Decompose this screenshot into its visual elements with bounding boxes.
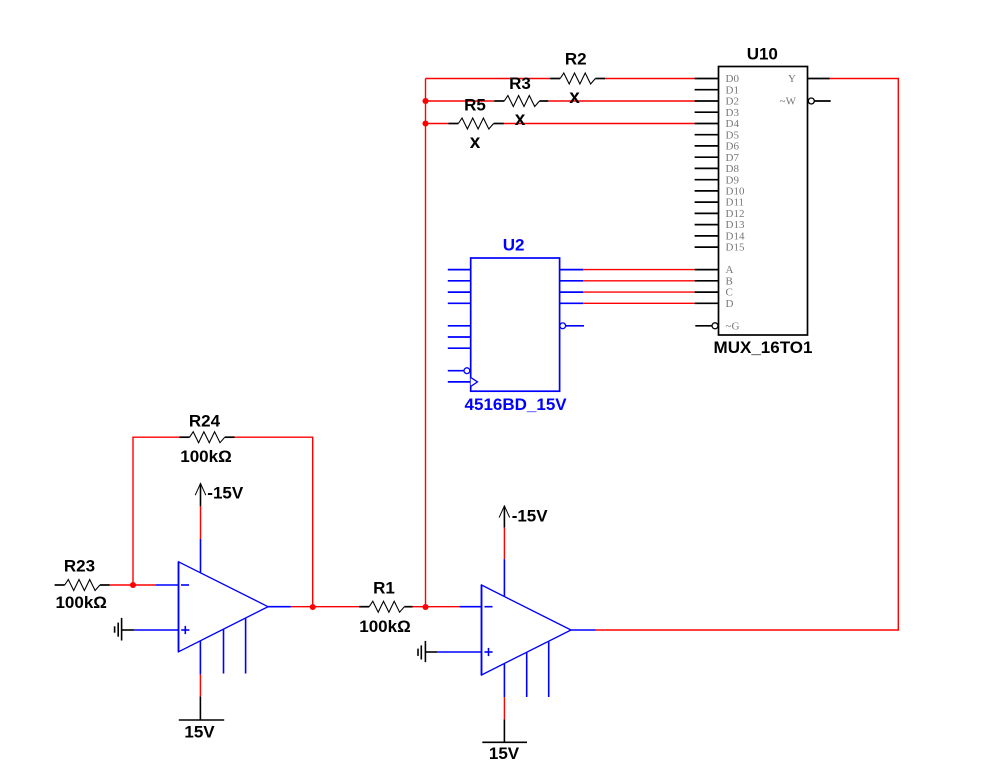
resistor R2 [550,73,605,84]
svg-text:100kΩ: 100kΩ [180,447,231,466]
junction node D4 [422,120,428,126]
op-amp2 minus pin stub [460,606,482,608]
op-amp2 plus pin stub [437,651,481,653]
op-amp2 plus symbol [484,651,492,653]
wire R1 to junction [413,606,426,608]
counter U2 box [471,258,560,391]
power -15V arrow op-amp1 [195,484,206,507]
wire B row U2 to U10 [583,280,694,282]
svg-text:R5: R5 [464,95,486,114]
wire 15V to op-amp1 [199,674,201,696]
resistor R23 [55,580,110,591]
svg-text:-15V: -15V [512,507,549,526]
U10 pin ~W with bubble [808,98,814,104]
svg-text:D1: D1 [726,84,739,96]
wire feedback loop R24 [133,437,180,585]
svg-text:~G: ~G [726,320,740,332]
svg-text:15V: 15V [184,723,215,742]
resistor R3 [494,96,548,107]
junction node D2 [422,98,428,104]
svg-text:D14: D14 [726,231,745,243]
junction node R1 / trunk [422,604,428,610]
svg-text:MUX_16TO1: MUX_16TO1 [714,338,813,357]
op-amp1 V- pin [199,641,201,675]
U10 select pins A B C D [695,270,719,304]
svg-text:C: C [726,287,733,299]
U2 left pin with bubble [448,370,464,372]
op-amp1 plus pin stub [134,629,178,631]
op-amp2 V- pin [503,664,505,698]
svg-text:-15V: -15V [207,484,244,503]
wire R23 to op-amp minus input [110,584,156,586]
svg-text:100kΩ: 100kΩ [359,617,410,636]
U10 pin name labels [726,73,797,332]
svg-text:x: x [515,109,526,130]
wire junction to op-amp2 minus [426,606,460,608]
svg-text:R3: R3 [509,74,531,93]
wire D0 row left segment [426,78,551,80]
op-amp2 output pin stub [571,629,596,631]
resistor R5 [448,118,504,129]
power 15V bar op-amp2 [482,719,527,742]
svg-text:B: B [726,275,733,287]
svg-text:D7: D7 [726,152,740,164]
op-amp2 V+ pin [503,559,505,597]
svg-text:D12: D12 [726,208,745,220]
wire D2 row left segment [426,100,495,102]
svg-text:U2: U2 [503,235,525,254]
op-amp1 offset pins [223,629,225,673]
svg-text:U10: U10 [747,45,778,64]
U10 left pins D0-D15 [695,79,719,248]
svg-text:D0: D0 [726,73,740,85]
resistor R1 [359,601,412,612]
wire D4 row left segment [426,123,449,125]
wire D row U2 to U10 [583,302,694,304]
svg-text:D5: D5 [726,129,740,141]
wire net1 vertical left trunk [425,79,427,608]
wire D2 row right segment [548,100,694,102]
svg-text:Y: Y [788,73,796,85]
svg-text:D4: D4 [726,118,740,130]
svg-text:R24: R24 [189,411,221,430]
op-amp1 minus symbol [181,584,189,586]
op-amp2 minus symbol [485,606,493,608]
svg-text:D11: D11 [726,197,745,209]
wire 15V to op-amp2 [503,697,505,719]
op-amp1 V+ pin [200,539,202,573]
wire C row U2 to U10 [583,291,694,293]
svg-text:x: x [470,132,481,153]
svg-text:D2: D2 [726,96,739,108]
op-amp2 offset pins [526,652,528,697]
wire A row U2 to U10 [583,269,694,271]
wire Y output feedback loop to op-amp A2 output [596,79,899,631]
U2 right output pins [560,270,584,304]
svg-text:D6: D6 [726,141,740,153]
svg-text:~W: ~W [780,96,797,108]
wire -15V to op-amp2 [503,528,505,559]
wire op-amp1 output to R1 [291,606,359,608]
op-amp1 plus symbol [181,629,189,631]
ground op-amp2 plus input [418,641,437,662]
svg-text:R23: R23 [64,556,95,575]
multiplexer U10 box [719,67,808,336]
svg-text:100kΩ: 100kΩ [55,593,106,612]
op-amp1 output pin stub [268,606,291,608]
svg-text:15V: 15V [489,744,520,763]
wire -15V to op-amp1 [200,506,202,539]
svg-text:D15: D15 [726,242,745,254]
svg-text:4516BD_15V: 4516BD_15V [465,395,568,414]
junction node feedback-input [130,582,136,588]
U2 right pin with bubble [560,323,566,329]
U2 clock pin with edge triangle [448,381,471,383]
U2 left pins [448,270,471,349]
U10 pin ~G stub with bubble [695,325,712,327]
power 15V bar op-amp1 [179,696,224,720]
svg-text:R1: R1 [373,578,395,597]
op-amp A2 second stage triangle [437,559,596,697]
wire D0 row right segment [605,78,695,80]
ground op-amp1 plus input [115,618,135,641]
svg-text:R2: R2 [565,49,587,68]
svg-text:x: x [569,87,580,108]
wire D4 row right segment [504,123,695,125]
op-amp A1 first stage triangle [134,539,291,674]
svg-text:D: D [726,298,734,310]
resistor R24 [180,432,235,443]
svg-text:D9: D9 [726,174,740,186]
svg-text:D13: D13 [726,219,745,231]
svg-text:D3: D3 [726,107,740,119]
power -15V arrow op-amp2 [499,506,510,528]
svg-text:D10: D10 [726,186,745,198]
junction node op-amp1 output [310,604,316,610]
U10 pin Y [808,78,830,80]
op-amp1 minus pin stub [156,584,179,586]
svg-text:A: A [726,264,734,276]
svg-text:D8: D8 [726,163,740,175]
